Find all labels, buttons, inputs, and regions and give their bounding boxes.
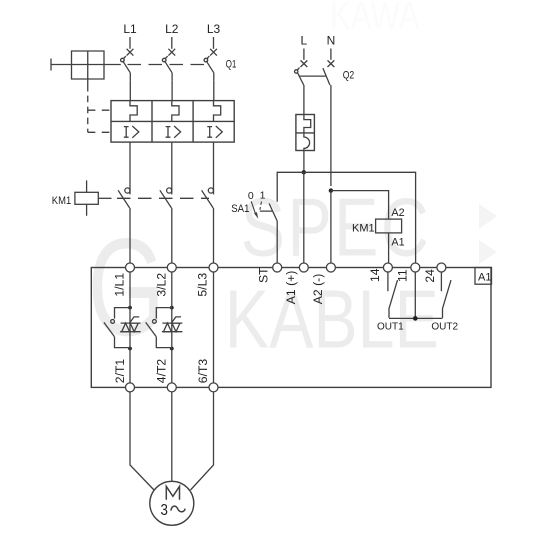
magnetic release 2	[166, 126, 181, 138]
wire node to terminal 11	[414, 272, 416, 318]
A1 designation box	[475, 268, 492, 285]
wire pole2 to release block	[171, 81, 173, 101]
svg-text:1/L1: 1/L1	[112, 273, 126, 297]
svg-text:3/L2: 3/L2	[154, 273, 168, 297]
thyristor pair V1 + bypass	[104, 306, 141, 351]
magnetic release 1	[124, 126, 139, 138]
svg-text:A2: A2	[391, 207, 404, 219]
svg-text:Q1: Q1	[226, 59, 237, 71]
wire L junction to terminal 11	[304, 172, 416, 263]
svg-text:A1: A1	[391, 236, 404, 248]
wire L junction to SA1	[277, 172, 304, 202]
supply terminal tick	[50, 59, 52, 71]
watermark	[88, 180, 439, 365]
wire 6/T3 to motor	[191, 392, 214, 490]
Q2 thermal jog	[304, 115, 311, 133]
wire V1 to terminal 2/T1	[129, 349, 131, 384]
wire V2 to terminal 4/T2	[171, 349, 173, 384]
soft starter block A1	[91, 268, 491, 388]
KM1 contact 1	[118, 186, 130, 215]
thyristor pair V2 + bypass	[146, 306, 183, 351]
wire pole3 to release block	[213, 81, 215, 101]
svg-text:SPEC: SPEC	[241, 180, 431, 273]
wire KM1 contact2 to terminal 3/L2	[171, 215, 173, 263]
svg-text:3: 3	[161, 502, 168, 519]
Q1 pole 3 (L3)	[204, 37, 217, 81]
Q1 mechanical link (dashed)	[128, 64, 211, 66]
svg-text:2/T1: 2/T1	[113, 359, 127, 384]
relay contact 24	[441, 272, 451, 318]
wire contacts to node 11	[389, 317, 443, 319]
top terminals	[126, 263, 135, 272]
trip linkage (dashed)	[87, 96, 89, 133]
Q1 operating mechanism box	[72, 51, 105, 92]
Q1 release block	[111, 101, 234, 143]
svg-text:KAWA: KAWA	[330, 0, 420, 38]
SA1 lever	[260, 204, 277, 222]
bottom terminals	[126, 383, 135, 392]
svg-text:KM1: KM1	[352, 222, 375, 234]
node L junction	[302, 170, 306, 174]
svg-text:ST: ST	[257, 267, 271, 283]
Q2 pole L	[295, 49, 308, 115]
svg-text:OUT2: OUT2	[431, 322, 458, 333]
wire N junction to A2(-) terminal	[330, 191, 332, 263]
wire SA1 to ST terminal	[276, 221, 278, 263]
Q2 magnetic arc	[304, 133, 310, 151]
KM1 contact 2	[160, 186, 172, 215]
wire Q2 to L junction	[303, 151, 305, 173]
svg-text:A2 (-): A2 (-)	[311, 274, 325, 304]
svg-text:L2: L2	[165, 22, 179, 36]
svg-text:5/L3: 5/L3	[196, 273, 210, 297]
KM1 link (dashed)	[117, 197, 209, 199]
Q2 link	[299, 75, 326, 77]
wire mechanism to Q1 pole1	[104, 64, 121, 66]
wire L junction to A1(+) terminal	[303, 172, 305, 263]
Q2 release box	[296, 115, 315, 151]
svg-text:4/T2: 4/T2	[155, 359, 169, 384]
wire to mechanism	[51, 64, 72, 66]
SA1 position arrow 0	[251, 201, 256, 215]
svg-text:24: 24	[423, 269, 437, 283]
phase3 through wire	[213, 272, 215, 383]
motor ~ sign	[171, 506, 185, 512]
svg-text:A1: A1	[478, 272, 491, 284]
svg-text:Q2: Q2	[343, 69, 355, 81]
wire KM1 contact3 to terminal 5/L3	[213, 215, 215, 263]
wire block to KM1 contact 1	[129, 142, 131, 186]
Q1 pole 1 (L1)	[121, 37, 134, 81]
svg-text:L1: L1	[123, 22, 137, 36]
wire block to KM1 contact 3	[213, 142, 215, 186]
KM1 actuator box	[75, 180, 112, 215]
node N junction	[329, 188, 333, 192]
wire coil to terminal 14	[388, 233, 390, 263]
svg-text:11: 11	[396, 269, 410, 282]
wire 2/T1 to motor	[130, 392, 154, 490]
svg-text:N: N	[327, 34, 336, 48]
Q1 pole 2 (L2)	[162, 37, 175, 81]
KM1 contact 3	[202, 186, 214, 215]
svg-text:0: 0	[248, 190, 254, 202]
relay contact 14	[388, 272, 398, 318]
svg-text:L3: L3	[207, 22, 221, 36]
svg-text:6/T3: 6/T3	[196, 359, 210, 384]
svg-text:KM1: KM1	[52, 195, 71, 207]
svg-text:SA1: SA1	[231, 203, 249, 215]
svg-text:OUT1: OUT1	[377, 322, 404, 333]
wire 4/T2 to motor	[171, 392, 173, 482]
SA1 position mark 1 (dashed)	[260, 202, 262, 210]
thermal release 2	[172, 101, 179, 122]
thermal release 3	[214, 101, 221, 122]
Q2 pole N	[323, 49, 334, 187]
wire N junction to KM1 coil	[331, 191, 389, 220]
thermal release 1	[130, 101, 137, 122]
wire pole1 to release block	[129, 81, 131, 101]
svg-text:A1 (+): A1 (+)	[284, 271, 298, 305]
wire KM1 contact1 to terminal 1/L1	[129, 215, 131, 263]
node 11 junction	[413, 316, 418, 321]
wire terminal 1/L1 to V1	[129, 272, 131, 308]
wire terminal 3/L2 to V2	[171, 272, 173, 308]
magnetic release 3	[207, 126, 222, 138]
svg-text:14: 14	[368, 268, 382, 282]
motor M1	[150, 481, 194, 525]
wire block to KM1 contact 2	[171, 142, 173, 186]
KM1 coil	[376, 219, 402, 233]
svg-text:L: L	[300, 34, 307, 48]
svg-text:1: 1	[260, 190, 266, 202]
